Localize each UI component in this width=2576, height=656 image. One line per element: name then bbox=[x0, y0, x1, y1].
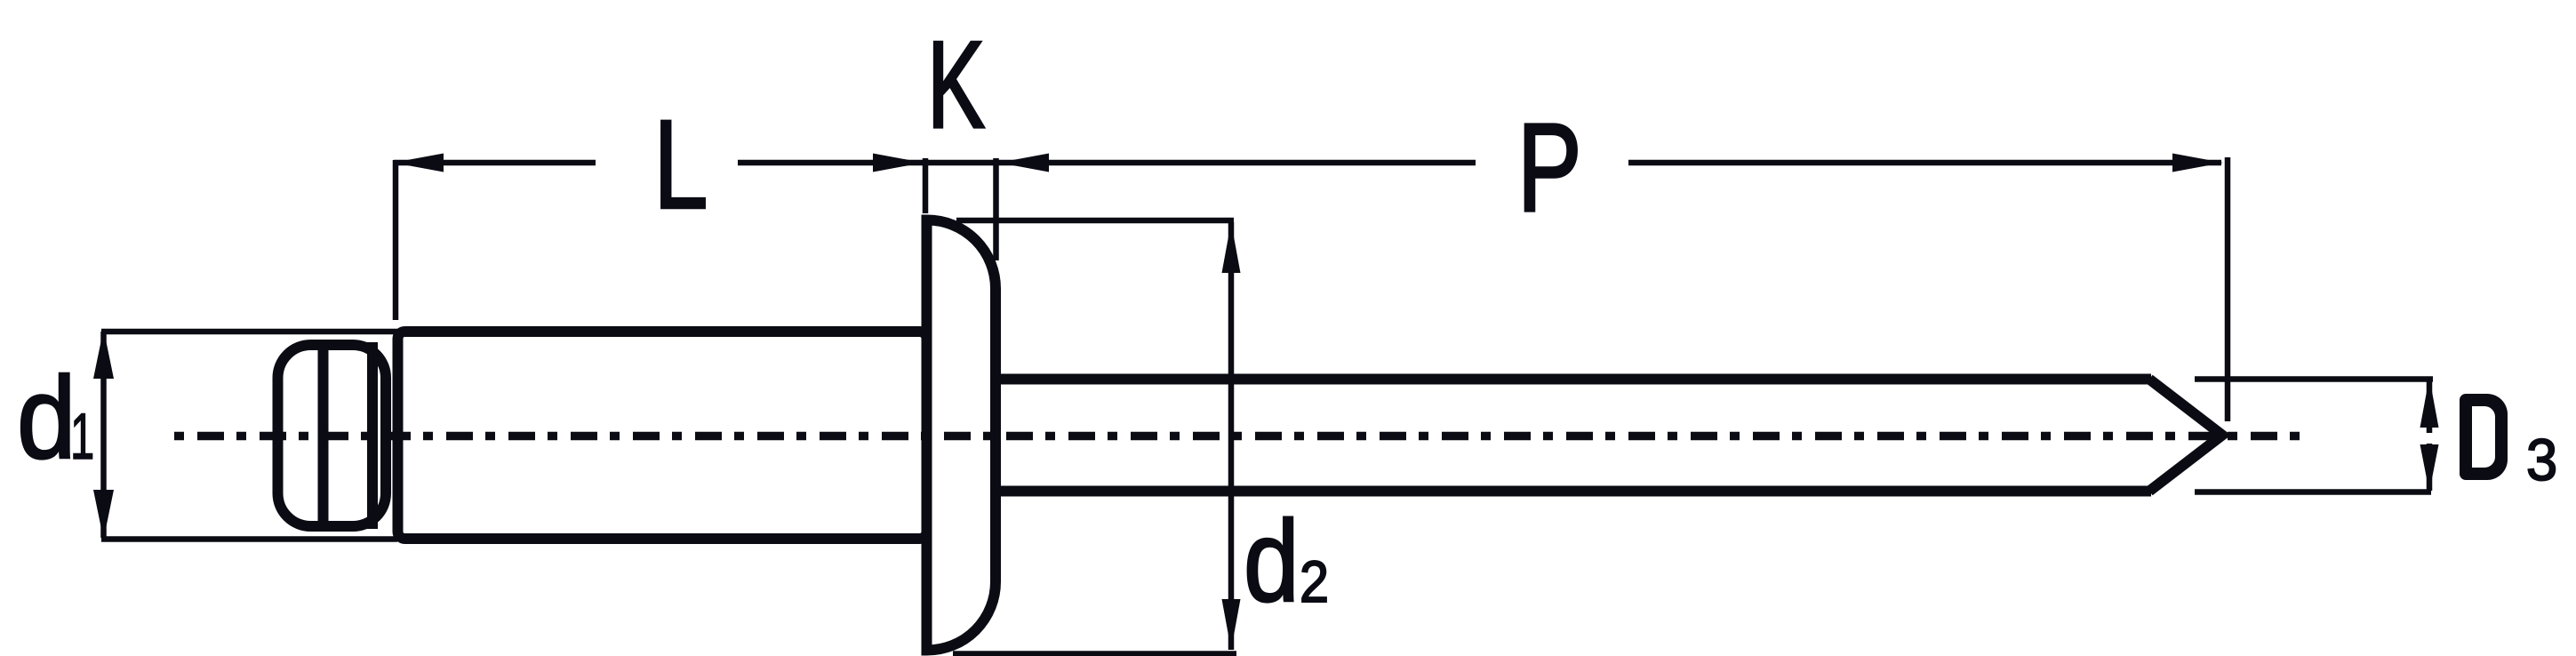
flange bbox=[927, 220, 996, 651]
D3 extension line top bbox=[2195, 376, 2433, 382]
head facet line 1 bbox=[318, 342, 329, 529]
svg-text:3: 3 bbox=[2526, 428, 2557, 492]
d2 extension line top bbox=[956, 218, 1234, 224]
svg-text:d: d bbox=[1244, 496, 1300, 625]
label D3 letter D bbox=[2460, 394, 2508, 480]
mandrel head bbox=[278, 345, 387, 526]
D3 arrow down bbox=[2420, 444, 2439, 492]
svg-text:P: P bbox=[1517, 97, 1581, 237]
L arrow left bbox=[393, 154, 444, 172]
K extension line right bbox=[993, 158, 999, 260]
K arrow pointing left bbox=[998, 154, 1049, 172]
K extension line left bbox=[923, 158, 929, 213]
svg-text:K: K bbox=[927, 16, 985, 154]
L dimension line right segment bbox=[738, 160, 924, 166]
d2 arrow up bbox=[1222, 222, 1241, 273]
D3 extension line bottom bbox=[2195, 489, 2431, 495]
d2 arrow down bbox=[1222, 599, 1241, 650]
P dimension line right segment bbox=[1628, 160, 2221, 166]
d1 extension line bottom bbox=[101, 536, 397, 542]
L/K shared arrow right bbox=[873, 154, 924, 172]
D3 arrow up bbox=[2420, 378, 2439, 428]
rivet body bbox=[398, 332, 927, 539]
L extension line bbox=[393, 160, 399, 320]
d2 extension line bottom bbox=[953, 651, 1236, 656]
svg-text:d: d bbox=[17, 352, 76, 483]
svg-text:2: 2 bbox=[1300, 549, 1329, 615]
d1 dimension line bbox=[100, 332, 107, 538]
center line bbox=[174, 432, 2301, 441]
P extension line bbox=[2225, 157, 2231, 421]
svg-text:L: L bbox=[653, 94, 708, 236]
head facet line 2 bbox=[367, 342, 378, 529]
D3 dimension line bbox=[2427, 380, 2433, 433]
mandrel point bbox=[2149, 380, 2222, 492]
d2 dimension line bbox=[1228, 222, 1235, 650]
mandrel stem bottom edge bbox=[996, 486, 2151, 497]
d1 extension line top bbox=[101, 329, 397, 335]
mandrel stem top edge bbox=[996, 374, 2151, 385]
d1 arrow up bbox=[93, 329, 114, 379]
P arrow right bbox=[2172, 154, 2223, 172]
svg-text:1: 1 bbox=[70, 401, 94, 473]
K-P dimension line left segment bbox=[924, 160, 1476, 166]
L dimension line left segment bbox=[394, 160, 596, 166]
d1 arrow down bbox=[93, 490, 114, 540]
